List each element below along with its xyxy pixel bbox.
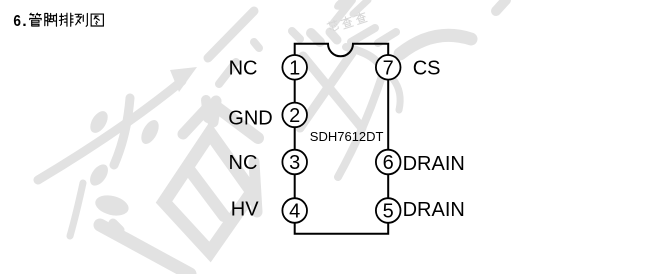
wm small wedge (113, 223, 120, 230)
svg-text:6: 6 (383, 152, 394, 174)
title char 脚 (45, 13, 57, 26)
pin 7 circle (376, 55, 401, 80)
svg-text:7: 7 (383, 57, 394, 79)
svg-text:HV: HV (231, 198, 259, 220)
title char 图 (91, 14, 103, 26)
wm curved vertical stroke (114, 98, 130, 165)
svg-text:DRAIN: DRAIN (403, 199, 465, 221)
svg-text:2: 2 (289, 105, 300, 127)
pin 6 circle (376, 150, 401, 175)
wm chip X stroke b (300, 53, 352, 128)
title char 管 (30, 13, 42, 26)
svg-text:SDH7612DT: SDH7612DT (310, 129, 384, 144)
svg-text:NC: NC (229, 58, 258, 80)
wm vertical tail stroke (70, 183, 83, 236)
svg-text:DRAIN: DRAIN (403, 153, 465, 175)
wm top corner tick (292, 31, 300, 39)
wm long slash stroke (38, 81, 182, 180)
wm hook stroke b (93, 192, 131, 219)
title char 排 (59, 13, 73, 26)
wm top slash c (378, 32, 396, 43)
wm top wedge a (311, 33, 320, 42)
wm top slash a2 (353, 0, 368, 14)
pin 5 circle (376, 198, 401, 223)
wm side vertical stroke (254, 162, 257, 212)
svg-text:CS: CS (413, 58, 441, 80)
wm chevron left leg (183, 105, 210, 134)
chip outline with notch (295, 44, 389, 234)
svg-text:GND: GND (228, 107, 272, 129)
pin 3 circle (282, 150, 307, 175)
pin 1 circle (282, 55, 307, 80)
wm diamond bar (188, 168, 224, 216)
title char 列 (75, 13, 87, 26)
wm chip dot stroke (393, 79, 400, 110)
wm top slash (333, 0, 352, 24)
svg-text:.: . (22, 13, 26, 30)
wm left slash long (208, 11, 254, 58)
wm chevron right leg (214, 105, 258, 138)
pin 2 circle (282, 103, 307, 128)
wm eyebrow swoosh (400, 35, 471, 54)
wm left slash fragment (219, 62, 236, 84)
wm fat comma stroke b (138, 117, 163, 147)
wm top slash b (351, 28, 375, 42)
wm apex stem (206, 100, 208, 118)
wm top wedge b (330, 32, 337, 40)
wm hook stroke a (86, 161, 111, 189)
wm fat comma stroke (87, 108, 112, 136)
wm top-right dot (496, 0, 506, 11)
wm bottom diagonal stroke (100, 225, 190, 274)
wm top blob (332, 0, 354, 13)
svg-text:3: 3 (289, 152, 300, 174)
wm small tick (254, 42, 259, 48)
wm chip arc stroke (338, 47, 382, 177)
svg-text:6: 6 (13, 13, 21, 30)
wm left wedge blob (213, 101, 216, 122)
svg-text:1: 1 (289, 57, 300, 79)
svg-text:NC: NC (229, 152, 258, 174)
wm small text 芯查查 (327, 11, 368, 34)
wm diamond frame (164, 133, 252, 252)
svg-text:5: 5 (383, 201, 394, 223)
svg-text:4: 4 (289, 201, 300, 223)
wm chip X stroke a (303, 56, 362, 128)
wm slash tip wedge (170, 67, 197, 92)
pin 4 circle (282, 198, 307, 223)
